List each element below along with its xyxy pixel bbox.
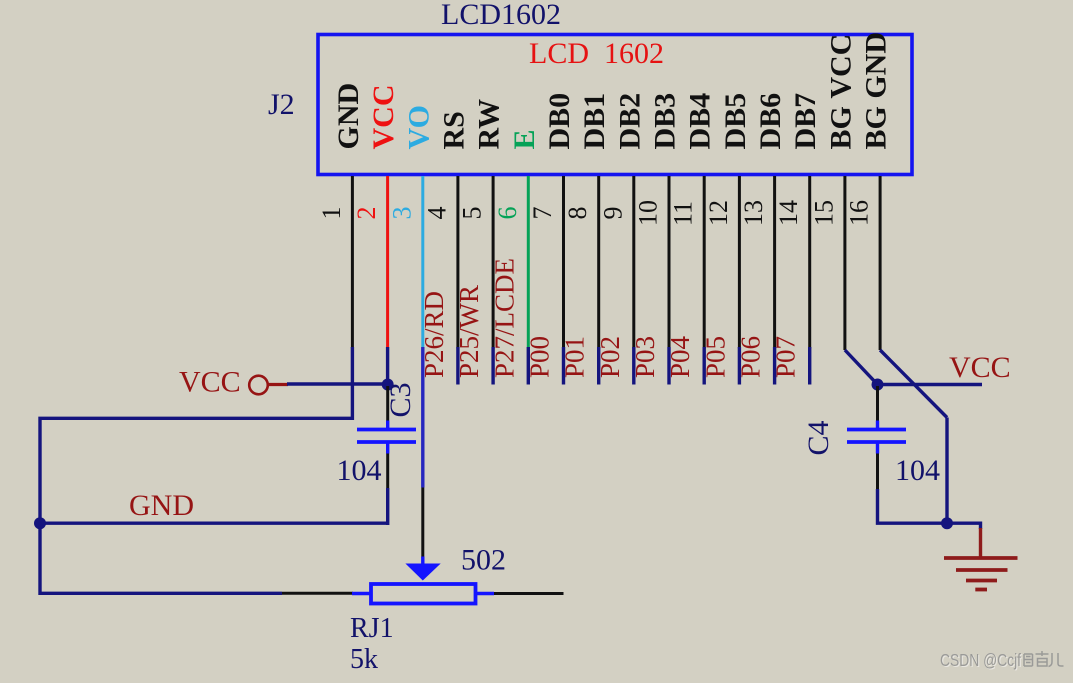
capacitor C3 pin (black) [386, 454, 389, 489]
potentiometer RJ1 left lead [352, 592, 371, 595]
svg-text:P01: P01 [560, 336, 590, 378]
svg-text:DB5: DB5 [719, 93, 752, 150]
svg-text:GND: GND [129, 489, 194, 522]
svg-text:6: 6 [493, 207, 522, 220]
junction dot VCC/pin2/C3 [382, 379, 394, 391]
potentiometer RJ1 right pin wire (black) [494, 592, 564, 595]
svg-text:9: 9 [598, 207, 627, 220]
svg-text:BG VCC: BG VCC [824, 34, 857, 150]
wire pin 7 vertical segment [562, 176, 565, 349]
wire GND horizontal rail [40, 522, 388, 525]
capacitor C4 top pin (black) [876, 386, 879, 421]
capacitor C4 top plate [847, 428, 906, 432]
svg-text:VCC: VCC [949, 351, 1011, 384]
LCD1602 component box (connector J2) [318, 35, 912, 175]
wire pin 4 vertical segment [456, 176, 459, 349]
svg-text:RJ1: RJ1 [350, 613, 394, 644]
potentiometer RJ1 body [371, 584, 476, 604]
svg-text:10: 10 [634, 200, 663, 226]
svg-text:4: 4 [422, 207, 451, 220]
svg-text:DB6: DB6 [754, 93, 787, 150]
svg-text:DB2: DB2 [613, 93, 646, 150]
svg-text:P27/LCDE: P27/LCDE [489, 258, 519, 378]
wire pin 9 vertical segment [632, 176, 635, 349]
power terminal VCC circle [249, 376, 268, 395]
svg-text:RS: RS [437, 111, 470, 149]
wire VCC node horizontal (right) [878, 383, 983, 386]
capacitor C3 top plate [357, 428, 416, 432]
svg-text:J2: J2 [268, 88, 295, 121]
svg-text:1: 1 [317, 207, 346, 220]
svg-text:P06: P06 [736, 336, 766, 378]
svg-text:P07: P07 [771, 336, 801, 378]
svg-text:13: 13 [739, 200, 768, 226]
svg-text:7: 7 [528, 207, 557, 220]
svg-text:14: 14 [774, 200, 803, 226]
svg-text:3: 3 [387, 207, 416, 220]
wire pin 13 vertical segment [773, 176, 776, 349]
svg-text:16: 16 [845, 200, 874, 226]
wire net stub pin 6 [527, 347, 530, 385]
svg-text:VCC: VCC [367, 85, 400, 150]
wire pin 2 vertical segment [386, 176, 389, 347]
svg-text:5: 5 [458, 207, 487, 220]
svg-text:DB3: DB3 [649, 93, 682, 150]
svg-text:C3: C3 [384, 382, 417, 417]
wire pin15 diagonal to VCC node [845, 350, 878, 385]
svg-text:104: 104 [337, 454, 382, 487]
svg-text:5k: 5k [350, 644, 378, 675]
wire net stub pin 12 [738, 347, 741, 385]
capacitor C3 top lead stub [386, 421, 389, 429]
capacitor C4 bottom lead stub [876, 444, 879, 454]
svg-text:P02: P02 [595, 336, 625, 378]
potentiometer RJ1 wiper arrow [405, 564, 440, 581]
potentiometer wiper lead stub [421, 557, 424, 566]
svg-text:DB7: DB7 [789, 93, 822, 150]
junction dot ground node [941, 517, 953, 529]
wire net stub pin 2 [386, 347, 389, 385]
wire net stub pin 8 [597, 347, 600, 385]
wire net stub pin 11 [703, 347, 706, 385]
junction dot pin15/C4/VCC [872, 379, 884, 391]
wire pin3 VO down to potentiometer wiper [421, 347, 424, 488]
svg-text:502: 502 [461, 544, 506, 577]
wire pin 14 vertical segment [808, 176, 811, 349]
potentiometer RJ1 right lead [476, 592, 495, 595]
svg-text:LCD1602: LCD1602 [441, 0, 561, 31]
potentiometer wiper pin (black) [421, 488, 424, 559]
wire pin 1 vertical segment [351, 176, 354, 349]
capacitor C3 bottom plate [357, 440, 416, 444]
wire pin 15 vertical segment [843, 176, 846, 350]
svg-text:P04: P04 [665, 335, 695, 378]
terminal lead dark red [268, 383, 288, 386]
wire pin 16 vertical segment [879, 176, 882, 350]
capacitor C4 top lead stub [876, 421, 879, 429]
svg-text:VO: VO [402, 105, 435, 149]
svg-text:104: 104 [895, 454, 940, 487]
wire pin1 GND net: down, left, down to bottom rail [40, 347, 352, 593]
wire net stub pin 14 [808, 347, 811, 385]
wire pin 10 vertical segment [668, 176, 671, 349]
wire net stub pin 5 [491, 347, 494, 385]
ground symbol [944, 558, 1018, 590]
watermark CSDN @Ccjf (gray) [940, 650, 1022, 671]
svg-text:E: E [508, 129, 541, 149]
wire net stub pin 10 [667, 347, 670, 385]
svg-text:P00: P00 [525, 336, 555, 378]
svg-text:DB1: DB1 [578, 93, 611, 150]
svg-text:P03: P03 [630, 336, 660, 378]
svg-text:DB4: DB4 [684, 93, 717, 150]
wire C4 bottom to ground rail [878, 489, 948, 523]
junction dot GND rail / left rail [34, 517, 46, 529]
wire pin 12 vertical segment [738, 176, 741, 349]
wire pin 8 vertical segment [597, 176, 600, 349]
wire bottom rail black segment to RJ1 [282, 592, 353, 595]
wire pin 5 vertical segment [492, 176, 495, 349]
svg-text:DB0: DB0 [543, 93, 576, 150]
svg-text:BG GND: BG GND [860, 32, 893, 150]
wire net stub pin 4 [456, 347, 459, 385]
wire net stub pin 13 [773, 347, 776, 385]
svg-text:VCC: VCC [179, 366, 241, 399]
svg-text:RW: RW [473, 99, 506, 150]
svg-text:P05: P05 [700, 336, 730, 378]
wire C3 to GND rail [386, 488, 389, 525]
wire pin 6 vertical segment [527, 176, 530, 347]
watermark CJK glyphs (drawn) [1024, 651, 1064, 667]
svg-text:LCD 1602: LCD 1602 [529, 37, 664, 70]
wire pin 3 vertical segment [421, 176, 424, 347]
wire pin16 vertical to ground node [945, 418, 948, 523]
svg-text:15: 15 [809, 200, 838, 226]
wire net stub pin 7 [562, 347, 565, 385]
ground lead (dark red) [979, 528, 982, 558]
capacitor C4 bottom plate [847, 440, 906, 444]
svg-text:2: 2 [352, 207, 381, 220]
wire pin 11 vertical segment [703, 176, 706, 349]
capacitor C3 bottom lead stub [386, 444, 389, 454]
wire pin16 diagonal down [880, 350, 947, 418]
capacitor C4 pin (black) [876, 454, 879, 490]
svg-text:P25/WR: P25/WR [454, 285, 484, 378]
svg-text:CSDN @Ccjf: CSDN @Ccjf [940, 650, 1021, 670]
wire net stub pin 9 [632, 347, 635, 385]
wire VCC to pin2 [287, 382, 388, 385]
svg-text:GND: GND [332, 83, 365, 150]
svg-text:11: 11 [669, 201, 698, 226]
svg-text:8: 8 [563, 207, 592, 220]
svg-text:12: 12 [704, 200, 733, 226]
svg-text:C4: C4 [802, 420, 835, 455]
wire ground node to ground symbol [947, 523, 981, 529]
capacitor C3 top pin (black) [386, 386, 389, 421]
